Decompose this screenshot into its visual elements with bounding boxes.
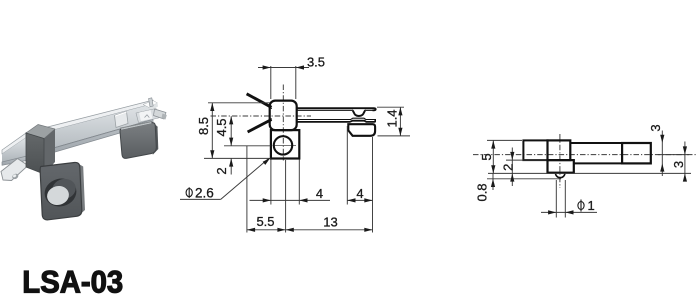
arrow 4.5 top — [229, 116, 233, 124]
dim 4 second line — [347, 199, 372, 201]
holder block front face — [26, 133, 44, 174]
dim 4.5 line — [230, 116, 232, 146]
dimensions of centre view — [180, 66, 410, 233]
arrow 13 right — [364, 228, 372, 232]
phi1 extension right — [564, 180, 566, 218]
text phi 2.6 — [186, 187, 192, 198]
hole circle — [274, 136, 292, 154]
svg-text:8.5: 8.5 — [196, 117, 211, 135]
svg-text:13: 13 — [323, 214, 337, 229]
arrow 8.5 bottom — [210, 150, 214, 158]
extension right of 4 — [298, 160, 300, 205]
end block top face — [121, 122, 158, 135]
svg-text:3: 3 — [648, 124, 663, 131]
dim 5.5 and 13 line — [247, 229, 373, 231]
dimension texts right view — [474, 124, 686, 212]
vertical centerline — [559, 134, 561, 188]
arm top inner line — [297, 109, 374, 111]
metal strip left bend face — [2, 137, 27, 162]
phi1 extension left — [555, 180, 557, 218]
metal strip bottom face — [26, 120, 153, 161]
arrow 4a right — [299, 198, 307, 202]
dim 4 first line — [250, 199, 331, 201]
arrow 4.5 bottom / 2 top — [229, 138, 233, 146]
arrow 2 top — [510, 152, 514, 160]
svg-text:4: 4 — [316, 186, 323, 201]
text phi 1 — [578, 200, 584, 212]
arm dip — [352, 110, 365, 116]
metal strip broad face — [26, 104, 153, 156]
svg-text:3: 3 — [671, 161, 686, 168]
extension line A circle center — [224, 145, 271, 147]
left bent tab — [1, 159, 28, 181]
svg-text:1.4: 1.4 — [385, 109, 400, 127]
left rect — [523, 140, 547, 160]
dim 3 second top extension — [658, 154, 689, 156]
lobe with hole — [40, 162, 82, 219]
circle horizontal centerline — [273, 145, 297, 147]
dim 3.5 extension lines — [270, 66, 272, 99]
holder block top face — [26, 125, 55, 139]
horizontal centerline — [473, 154, 697, 156]
pin semicircle — [555, 173, 565, 178]
arrow 1.4 top — [398, 107, 402, 115]
arrow 2 bottom — [510, 173, 514, 181]
extension centre — [285, 160, 287, 233]
leader phi 2.6 underline — [180, 198, 221, 200]
svg-text:5.5: 5.5 — [256, 214, 274, 229]
arrowheads centre view — [210, 65, 402, 232]
arm bottom inner line with plateau — [297, 118, 375, 119]
svg-text:4: 4 — [356, 186, 363, 201]
holder block right face — [44, 129, 55, 174]
bottom extension line B — [204, 157, 271, 159]
arrow 5.5 left — [247, 228, 255, 232]
crimp base plate — [136, 109, 159, 123]
left tab hole — [11, 173, 19, 181]
dim 2 line — [511, 148, 513, 187]
arrow 4b left — [347, 198, 355, 202]
metal strip seam line — [26, 120, 153, 156]
lower box — [271, 130, 299, 158]
brush block side view — [348, 124, 375, 136]
arrow 8.5 top — [210, 103, 214, 111]
svg-text:3.5: 3.5 — [307, 54, 325, 69]
left bent tab top sliver — [1, 159, 21, 174]
svg-text:LSA-03: LSA-03 — [22, 264, 123, 299]
arrow phi1 right — [565, 210, 573, 214]
extension left of 4 — [270, 160, 272, 205]
hole inner wall crescent — [50, 176, 78, 201]
lower rect — [548, 160, 574, 173]
arrow 3b top — [683, 146, 687, 154]
right end block — [622, 143, 651, 163]
arrow 5 top — [491, 140, 495, 148]
hole outer rim — [42, 175, 80, 210]
upper spring wire — [247, 94, 272, 108]
dim 3 first line — [661, 131, 663, 177]
strip top line — [570, 142, 622, 144]
centerline horizontal through pivot — [211, 115, 312, 117]
extension brush left — [346, 126, 348, 205]
arrowheads right view — [491, 135, 687, 215]
lobe right side sliver — [80, 165, 85, 214]
centerline vertical through holder — [282, 85, 284, 161]
arrow 3a top — [660, 135, 664, 143]
arrow 3a bottom — [660, 163, 664, 171]
arrow 2 bottom — [229, 158, 233, 166]
dim 5 line — [492, 140, 494, 173]
metal strip top face — [26, 100, 153, 137]
end block edge highlight — [121, 123, 152, 130]
metal strip left bend bottom — [2, 156, 27, 165]
arrow 1.4 bottom — [398, 128, 402, 136]
arm end cap — [374, 119, 376, 122]
dim 3 second line — [684, 142, 686, 182]
dim 5 top extension — [487, 139, 522, 141]
clip on strip — [115, 112, 129, 128]
end block right face — [152, 122, 159, 155]
svg-text:2: 2 — [214, 167, 229, 174]
hole bright interior — [45, 184, 71, 208]
arrow 3.5 right — [296, 65, 304, 69]
extension wire tip — [246, 146, 248, 233]
dim 8.5 line — [211, 103, 213, 159]
dimension texts centre view — [186, 54, 400, 229]
dim 1.4 line — [399, 107, 401, 136]
metal strip left bend top face — [2, 132, 27, 154]
lower wire inner line — [257, 119, 272, 127]
dim 2 extension — [506, 159, 547, 161]
extension right end — [372, 137, 374, 233]
dim 3.5 line — [258, 67, 309, 69]
crimp bright clamp — [139, 110, 153, 121]
end block front face — [120, 123, 156, 159]
upper wire inner line — [259, 101, 272, 109]
crimp right tab dark side — [162, 114, 167, 120]
lower spring wire — [248, 120, 272, 133]
svg-text:0.8: 0.8 — [474, 183, 489, 201]
dimensions of right view — [487, 131, 691, 218]
dim 2 tail — [230, 158, 232, 174]
crimp notch — [145, 115, 150, 118]
svg-text:2.6: 2.6 — [195, 186, 214, 201]
arrow 3.5 left — [263, 65, 271, 69]
arrow leader 2.6 — [263, 158, 271, 165]
strip bottom line — [574, 162, 622, 164]
arrow phi1 left — [548, 210, 556, 214]
svg-text:4.5: 4.5 — [214, 118, 229, 136]
arrow 5.5 right — [277, 228, 285, 232]
svg-text:5: 5 — [479, 153, 494, 160]
arrow 3b bottom — [683, 173, 687, 181]
pin bottom extension L2 — [487, 178, 561, 180]
dim 8.5 top extension — [208, 102, 270, 104]
middle rect — [548, 140, 571, 160]
arm top edge — [297, 108, 376, 110]
dim 1.4 extensions — [377, 106, 404, 108]
svg-text:2: 2 — [500, 164, 515, 171]
arrow 4a left — [263, 198, 271, 202]
dim 0.8 tail — [492, 173, 494, 190]
phi1 dim line — [541, 211, 597, 213]
arrow 0.8 bottom — [491, 179, 495, 187]
arrow 13 left — [286, 228, 294, 232]
holder block — [270, 101, 297, 131]
crimp right tab — [154, 109, 167, 119]
crimp up prong — [149, 98, 154, 107]
arm bottom edge with plateau — [297, 121, 375, 122]
leader phi 2.6 diagonal — [221, 159, 269, 200]
arrow 4b right — [364, 198, 372, 202]
svg-text:1: 1 — [588, 198, 595, 213]
crimp bent tip bright fold — [143, 101, 158, 108]
long bottom extension L1 — [488, 172, 691, 174]
arrow 5 bottom / 0.8 top — [491, 165, 495, 173]
